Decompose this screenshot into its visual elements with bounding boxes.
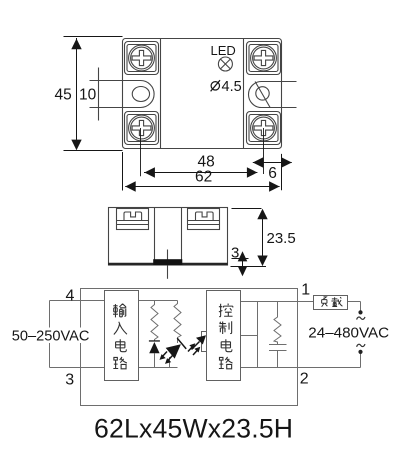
svg-text:1: 1 bbox=[301, 282, 310, 299]
svg-text:3: 3 bbox=[231, 245, 239, 262]
svg-text:62: 62 bbox=[195, 169, 212, 186]
svg-text:24–480VAC: 24–480VAC bbox=[308, 325, 389, 342]
svg-text:50–250VAC: 50–250VAC bbox=[12, 329, 90, 345]
svg-text:4.5: 4.5 bbox=[222, 79, 242, 95]
svg-text:3: 3 bbox=[65, 372, 74, 389]
svg-text:62Lx45Wx23.5H: 62Lx45Wx23.5H bbox=[94, 414, 293, 444]
svg-text:4: 4 bbox=[66, 288, 75, 305]
svg-text:2: 2 bbox=[300, 370, 309, 387]
svg-text:23.5: 23.5 bbox=[267, 230, 296, 247]
svg-text:10: 10 bbox=[79, 87, 97, 104]
svg-text:LED: LED bbox=[211, 43, 236, 58]
svg-text:6: 6 bbox=[268, 165, 277, 182]
svg-text:45: 45 bbox=[55, 87, 72, 104]
